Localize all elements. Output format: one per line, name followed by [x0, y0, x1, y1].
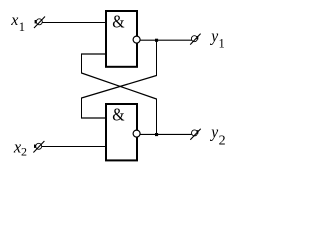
- nand gate U1 (top) body: [105, 10, 138, 68]
- svg-text:1: 1: [19, 20, 25, 34]
- svg-text:2: 2: [21, 145, 27, 159]
- terminal y2: [190, 129, 200, 140]
- terminal y1: [190, 34, 200, 45]
- wire left vertical U1 pin2 down: [81, 54, 83, 74]
- terminal x2: [33, 141, 44, 153]
- wire diagonal to node B: [82, 73, 157, 99]
- terminal x1: [34, 17, 45, 29]
- wire node B vertical: [156, 99, 158, 135]
- svg-text:&: &: [112, 105, 124, 125]
- wire diagonal A to U1-feedback-left: [82, 76, 157, 99]
- wire x2 to U2 pin2: [42, 146, 106, 148]
- U2 output bubble: [133, 130, 140, 137]
- svg-text:&: &: [112, 12, 124, 32]
- svg-text:y: y: [209, 122, 219, 142]
- node B junction dot: [155, 133, 158, 136]
- wire U2 output to y2: [140, 133, 192, 135]
- wire x1 to U1 pin1: [42, 22, 105, 24]
- svg-text:2: 2: [219, 134, 226, 149]
- U1 output bubble: [133, 36, 140, 43]
- svg-text:x: x: [10, 12, 18, 29]
- svg-text:1: 1: [219, 37, 225, 51]
- wire U1 output to y1: [140, 39, 192, 41]
- wire U2 pin1 horizontal: [81, 117, 105, 119]
- node A junction dot: [155, 39, 158, 42]
- wire left vertical down to U2 pin1: [81, 98, 83, 119]
- nand gate U2 (bottom) body: [105, 103, 138, 161]
- wire U1 pin2 horizontal: [81, 53, 105, 55]
- wire node A vertical down: [156, 40, 158, 76]
